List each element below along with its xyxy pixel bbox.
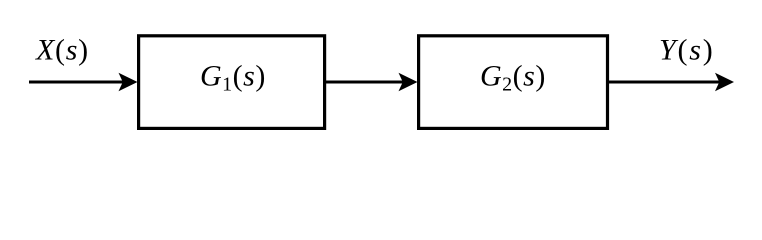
arrowhead input: [119, 73, 138, 91]
arrowhead middle: [399, 73, 418, 91]
block G2: [419, 36, 608, 129]
svg-text:G1(s): G1(s): [200, 60, 266, 96]
wire output Y(s): [608, 81, 720, 84]
wire G1 to G2: [325, 81, 404, 84]
wire input X(s): [29, 81, 124, 84]
arrowhead output: [715, 73, 734, 91]
svg-text:G2(s): G2(s): [480, 60, 546, 96]
svg-text:X(s): X(s): [35, 34, 89, 67]
block G1: [139, 36, 325, 129]
svg-text:Y(s): Y(s): [659, 34, 715, 67]
